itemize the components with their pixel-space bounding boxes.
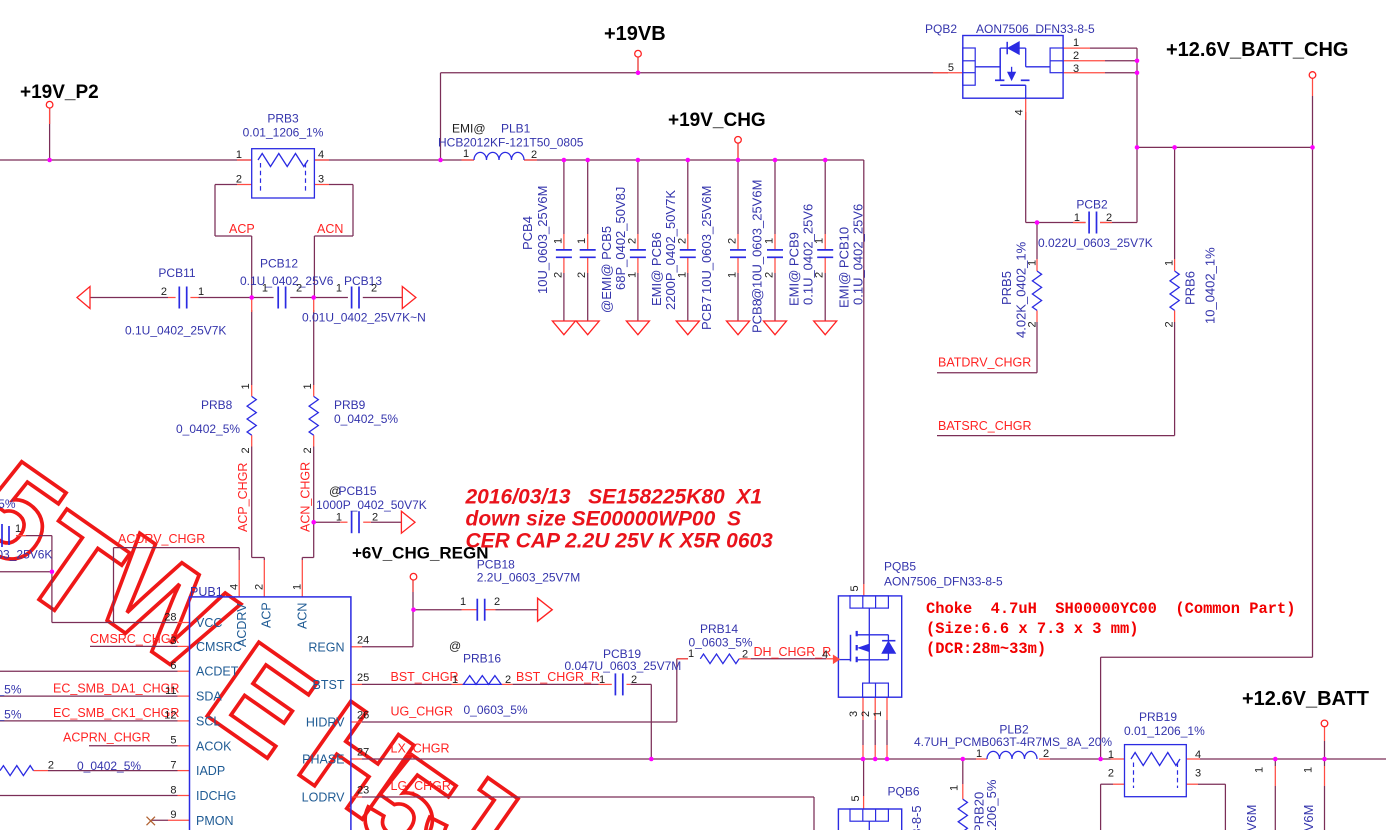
pin — [314, 159, 329, 161]
junction — [438, 158, 443, 163]
svg-text:12: 12 — [164, 710, 176, 722]
pin — [737, 258, 739, 273]
pin — [1113, 783, 1125, 785]
svg-text:1: 1 — [1254, 767, 1266, 773]
wire — [412, 580, 414, 610]
svg-text:0.1U_0402_25V6: 0.1U_0402_25V6 — [800, 204, 815, 305]
junction — [311, 520, 316, 525]
capacitor PCB15 — [351, 511, 353, 533]
svg-text:1: 1 — [262, 283, 268, 295]
svg-text:CMSRC_CHGR: CMSRC_CHGR — [90, 632, 180, 646]
svg-text:3: 3 — [1073, 63, 1079, 75]
wire — [251, 236, 253, 298]
svg-text:23: 23 — [357, 785, 369, 797]
svg-text:PRB3: PRB3 — [267, 112, 299, 126]
svg-text:PQB5: PQB5 — [884, 560, 916, 574]
pin — [237, 184, 252, 186]
wire — [113, 548, 115, 623]
resistor PRB3 (current sense) — [252, 149, 315, 198]
wire — [1324, 786, 1326, 830]
svg-text:1: 1 — [240, 383, 252, 389]
junction — [562, 158, 567, 163]
pin — [168, 297, 176, 299]
svg-text:0_1206_5%: 0_1206_5% — [984, 779, 999, 830]
svg-text:5: 5 — [170, 735, 176, 747]
wire — [1105, 60, 1137, 62]
svg-text:24: 24 — [357, 634, 369, 646]
pin — [687, 234, 689, 249]
svg-text:10U_0603_25V6M: 10U_0603_25V6M — [699, 186, 714, 294]
svg-text:1: 1 — [1073, 37, 1079, 49]
wire — [252, 557, 265, 559]
pin — [737, 143, 739, 158]
pin — [1039, 758, 1050, 760]
svg-text:PCB12: PCB12 — [260, 257, 298, 271]
pin — [862, 745, 864, 759]
power terminal +12.6V_BATT_CHG — [1309, 72, 1316, 79]
svg-text:2: 2 — [1027, 321, 1039, 327]
ground — [626, 321, 649, 335]
pin — [824, 258, 826, 273]
pin — [1274, 766, 1276, 786]
wire — [412, 610, 414, 647]
svg-text:ACP: ACP — [229, 222, 255, 236]
pin — [677, 658, 688, 660]
junction — [1135, 70, 1140, 75]
pin — [485, 609, 496, 611]
junction — [1172, 145, 1177, 150]
wire — [314, 235, 353, 237]
transistor PQB5 (AON7506 N-MOSFET) — [838, 596, 901, 697]
svg-text:1: 1 — [626, 272, 638, 278]
svg-text:2: 2 — [576, 272, 588, 278]
pin — [1063, 60, 1105, 62]
svg-text:Choke 4.7uH SH00000YC00 (Co: Choke 4.7uH SH00000YC00 (Common Part) — [926, 600, 1295, 618]
wire — [1100, 222, 1137, 224]
junction — [961, 757, 966, 762]
pin — [1312, 78, 1314, 96]
ground — [552, 321, 575, 335]
svg-text:2: 2 — [727, 238, 739, 244]
wire — [1324, 741, 1326, 759]
svg-text:PMON: PMON — [196, 814, 234, 828]
svg-text:0_0402_5%: 0_0402_5% — [0, 707, 22, 721]
svg-text:1: 1 — [872, 711, 884, 717]
svg-text:2: 2 — [1164, 321, 1176, 327]
svg-text:2: 2 — [1108, 768, 1114, 780]
wire — [737, 273, 739, 321]
pin — [886, 745, 888, 759]
svg-text:EC_SMB_DA1_CHGR: EC_SMB_DA1_CHGR — [53, 681, 179, 695]
junction — [311, 295, 316, 300]
wire — [751, 658, 826, 660]
svg-text:2: 2 — [764, 272, 776, 278]
svg-text:PRB9: PRB9 — [334, 398, 366, 412]
wire — [238, 548, 240, 560]
pin — [962, 784, 964, 799]
pin — [1186, 783, 1198, 785]
resistor PRB19 zigzag — [1131, 753, 1180, 766]
wire — [0, 720, 178, 722]
pin — [177, 622, 190, 624]
svg-text:PCB4: PCB4 — [520, 216, 535, 250]
svg-text:2_5%: 2_5% — [0, 497, 16, 511]
pin — [251, 385, 253, 396]
svg-text:PUB1: PUB1 — [190, 585, 223, 599]
pin — [1324, 727, 1326, 741]
svg-text:ACOK: ACOK — [196, 739, 232, 753]
off-page connector — [402, 287, 416, 309]
wire — [251, 447, 253, 558]
pin — [637, 234, 639, 249]
wire — [737, 160, 739, 234]
svg-text:5: 5 — [850, 795, 862, 801]
wire — [813, 797, 815, 830]
wire — [824, 273, 826, 321]
svg-text:2: 2 — [531, 149, 537, 161]
svg-text:1: 1 — [1074, 212, 1080, 224]
no-connect X at PMON — [147, 817, 156, 826]
svg-text:1: 1 — [764, 238, 776, 244]
svg-text:5: 5 — [948, 62, 954, 74]
junction — [249, 295, 254, 300]
wire — [637, 57, 639, 73]
svg-text:@: @ — [449, 639, 461, 653]
wire — [371, 521, 402, 523]
svg-text:PQB6: PQB6 — [888, 785, 920, 799]
svg-text:@EMI@ PCB5: @EMI@ PCB5 — [599, 226, 614, 313]
watermark text 5TWEH5J — [0, 433, 90, 595]
wire — [687, 273, 689, 321]
wire — [90, 645, 178, 647]
svg-text:1: 1 — [15, 523, 21, 535]
svg-text:4: 4 — [318, 149, 324, 161]
svg-text:BATSRC_CHGR: BATSRC_CHGR — [938, 419, 1032, 433]
capacitor PCB9 — [767, 249, 783, 251]
wire — [51, 536, 53, 623]
svg-text:ACPRN_CHGR: ACPRN_CHGR — [63, 731, 151, 745]
wire — [90, 297, 168, 299]
svg-text:(DCR:28m~33m): (DCR:28m~33m) — [926, 640, 1046, 658]
pin — [251, 299, 253, 312]
wire — [886, 720, 888, 745]
capacitor PCB13 — [351, 287, 353, 309]
svg-text:1: 1 — [599, 674, 605, 686]
svg-text:2: 2 — [505, 674, 511, 686]
pin — [501, 683, 512, 685]
svg-text:1: 1 — [1303, 767, 1315, 773]
wire — [863, 759, 865, 796]
svg-text:0_0402_5%: 0_0402_5% — [334, 412, 398, 426]
svg-text:LX_CHGR: LX_CHGR — [391, 742, 450, 756]
pin — [178, 720, 190, 722]
svg-text:25: 25 — [357, 672, 369, 684]
wire — [862, 720, 864, 745]
pin — [462, 609, 478, 611]
capacitor PCB11 — [178, 287, 180, 309]
wire — [874, 720, 876, 745]
pin — [687, 258, 689, 273]
off-page connector — [77, 287, 90, 309]
capacitor PCB18 — [476, 599, 478, 621]
wire — [215, 235, 252, 237]
svg-text:+19VB: +19VB — [604, 23, 666, 45]
wire — [1224, 784, 1226, 830]
svg-text:0.01_1206_1%: 0.01_1206_1% — [1124, 724, 1205, 738]
pin — [1036, 310, 1038, 322]
svg-text:1: 1 — [949, 785, 961, 791]
pin — [863, 584, 865, 596]
svg-text:PLB1: PLB1 — [501, 122, 531, 136]
wire — [1026, 222, 1086, 224]
svg-text:PRB16: PRB16 — [463, 652, 501, 666]
pin — [351, 683, 362, 685]
wire — [737, 143, 739, 160]
svg-text:2: 2 — [494, 596, 500, 608]
svg-text:PRB14: PRB14 — [700, 622, 738, 636]
svg-text:3: 3 — [170, 635, 176, 647]
svg-text:PRB5: PRB5 — [999, 271, 1014, 305]
pin — [1100, 222, 1112, 224]
wire — [630, 683, 651, 685]
pin — [824, 234, 826, 249]
pin — [774, 234, 776, 249]
pin — [351, 646, 362, 648]
wire — [1101, 656, 1313, 658]
pin — [313, 435, 315, 446]
capacitor PCB7 — [680, 249, 696, 251]
pin — [737, 234, 739, 249]
power terminal +12.6V_BATT — [1321, 720, 1328, 727]
wire — [637, 160, 639, 234]
wire — [263, 558, 265, 561]
svg-text:ACDRV: ACDRV — [235, 603, 249, 647]
svg-text:0.1U_0402_25V7K: 0.1U_0402_25V7K — [125, 324, 226, 338]
pin — [412, 580, 414, 592]
pin — [351, 796, 362, 798]
wire — [1025, 112, 1027, 223]
junction — [773, 158, 778, 163]
pin — [1174, 259, 1176, 271]
wire — [1274, 786, 1276, 830]
off-page connector — [538, 598, 553, 621]
pin — [1186, 758, 1200, 760]
wire — [362, 796, 814, 798]
junction — [47, 158, 52, 163]
resistor PRB6 — [1170, 271, 1179, 310]
svg-text:4: 4 — [1195, 749, 1201, 761]
junction — [411, 607, 416, 612]
wire — [89, 745, 178, 747]
svg-text:2.2U_0603_25V7M: 2.2U_0603_25V7M — [477, 570, 580, 584]
svg-text:+19V_CHG: +19V_CHG — [668, 110, 766, 131]
junction — [1322, 757, 1327, 762]
wire — [774, 160, 776, 234]
transistor PQB2 (AON7506 P-MOSFET) — [963, 36, 1063, 99]
svg-text:2: 2 — [552, 272, 564, 278]
svg-text:0.1U_0603_25V6K: 0.1U_0603_25V6K — [0, 548, 52, 562]
svg-text:10U_0603_25V6M: 10U_0603_25V6M — [535, 186, 550, 294]
wire — [1036, 223, 1038, 260]
wire — [524, 159, 864, 161]
pin — [1063, 72, 1105, 74]
svg-text:2: 2 — [236, 174, 242, 186]
wire — [1174, 322, 1176, 436]
junction — [1135, 59, 1140, 64]
pin — [886, 697, 888, 720]
svg-text:0_0603_5%: 0_0603_5% — [689, 636, 753, 650]
svg-text:0.1U_0402_25V6: 0.1U_0402_25V6 — [240, 274, 334, 288]
svg-text:1: 1 — [198, 286, 204, 298]
pin — [462, 159, 475, 161]
power terminal +19V_CHG — [735, 137, 742, 144]
pin — [524, 159, 537, 161]
svg-text:PQB2: PQB2 — [925, 22, 957, 36]
svg-text:2: 2 — [240, 447, 252, 453]
svg-text:LODRV: LODRV — [302, 791, 346, 805]
svg-text:1: 1 — [336, 283, 342, 295]
svg-text:27: 27 — [357, 747, 369, 759]
wire — [52, 622, 177, 624]
junction — [636, 158, 641, 163]
junction — [686, 158, 691, 163]
svg-text:26: 26 — [357, 710, 369, 722]
svg-text:2: 2 — [161, 286, 167, 298]
svg-text:AON7506_DFN33-8-5: AON7506_DFN33-8-5 — [909, 805, 924, 830]
pin — [238, 560, 240, 597]
junction — [636, 71, 641, 76]
capacitor PCB10 — [817, 249, 833, 251]
wire — [962, 759, 964, 784]
svg-text:PCB7: PCB7 — [699, 296, 714, 330]
capacitor PCB2 — [1088, 212, 1090, 234]
svg-text:DH_CHGR_R: DH_CHGR_R — [754, 645, 832, 659]
svg-text:5: 5 — [849, 585, 861, 591]
transistor PQB6 (AON7506 N-MOSFET) — [838, 809, 901, 835]
svg-text:HCB2012KF-121T50_0805: HCB2012KF-121T50_0805 — [438, 136, 584, 150]
svg-text:1: 1 — [1027, 260, 1039, 266]
pin — [313, 385, 315, 396]
wire — [774, 273, 776, 321]
svg-text:+12.6V_BATT: +12.6V_BATT — [1242, 688, 1369, 710]
wire — [650, 684, 652, 759]
inductor PLB1 — [474, 152, 524, 160]
resistor PRB20 — [958, 799, 967, 835]
svg-text:EMI@ PCB10: EMI@ PCB10 — [837, 227, 852, 308]
svg-text:1: 1 — [336, 512, 342, 524]
charger IC PUB1 body — [190, 597, 351, 835]
svg-text:10U_0603_25V6M: 10U_0603_25V6M — [1301, 805, 1316, 830]
wire — [199, 297, 274, 299]
wire — [1105, 72, 1137, 74]
wire — [513, 683, 599, 685]
svg-text:ACP: ACP — [260, 602, 274, 628]
pin — [263, 560, 265, 597]
wire — [251, 310, 253, 385]
wire — [496, 609, 538, 611]
wire — [314, 521, 341, 523]
svg-text:ACP_CHGR: ACP_CHGR — [236, 463, 250, 532]
svg-text:VCC: VCC — [196, 616, 222, 630]
pin — [933, 72, 963, 74]
wire — [48, 770, 178, 772]
pin — [301, 560, 303, 597]
svg-text:1: 1 — [676, 272, 688, 278]
pin — [1111, 758, 1125, 760]
svg-text:AON7506_DFN33-8-5: AON7506_DFN33-8-5 — [976, 22, 1095, 36]
svg-text:SDA: SDA — [196, 690, 222, 704]
wire — [563, 160, 565, 234]
svg-text:0.047U_0603_25V7M: 0.047U_0603_25V7M — [565, 659, 682, 673]
svg-text:3: 3 — [848, 711, 860, 717]
svg-text:4.7UH_PCMB063T-4R7MS_8A_20%: 4.7UH_PCMB063T-4R7MS_8A_20% — [914, 735, 1112, 749]
ground — [576, 321, 599, 335]
wire — [0, 159, 252, 161]
svg-text:IADP: IADP — [196, 764, 225, 778]
wire — [362, 721, 677, 723]
svg-text:1: 1 — [814, 238, 826, 244]
svg-text:28: 28 — [164, 611, 176, 623]
pin — [351, 758, 362, 760]
svg-text:1000P_0402_50V7K: 1000P_0402_50V7K — [316, 498, 427, 512]
wire — [151, 819, 168, 821]
resistor (clipped, IADP series) — [0, 766, 34, 776]
wire — [863, 160, 865, 584]
pin — [563, 258, 565, 273]
svg-text:1: 1 — [576, 238, 588, 244]
wire — [314, 159, 474, 161]
wire — [1324, 759, 1326, 766]
wire — [1274, 759, 1276, 766]
svg-text:7: 7 — [170, 759, 176, 771]
wire — [1100, 784, 1102, 830]
svg-text:CER CAP 2.2U 25V K X5R 0603: CER CAP 2.2U 25V K X5R 0603 — [466, 530, 774, 553]
wire — [313, 310, 315, 385]
capacitor PCB6 — [630, 249, 646, 251]
svg-text:+12.6V_BATT_CHG: +12.6V_BATT_CHG — [1166, 39, 1348, 61]
svg-text:1: 1 — [236, 149, 242, 161]
wire — [413, 609, 462, 611]
pin — [314, 184, 329, 186]
wire — [301, 558, 303, 561]
pin — [16, 535, 26, 537]
wire — [1036, 322, 1038, 373]
svg-text:PRB6: PRB6 — [1183, 271, 1198, 305]
ground — [727, 321, 750, 335]
svg-text:3: 3 — [1195, 768, 1201, 780]
svg-text:2: 2 — [371, 283, 377, 295]
svg-text:1: 1 — [302, 383, 314, 389]
svg-text:EMI@ PCB6: EMI@ PCB6 — [649, 232, 664, 306]
junction — [649, 757, 654, 762]
wire — [1100, 657, 1102, 759]
pin — [178, 745, 190, 747]
off-page connector — [401, 511, 415, 533]
pin — [178, 670, 190, 672]
power terminal +6V_CHG_REGN — [410, 573, 417, 580]
wire — [313, 236, 315, 298]
wire — [637, 273, 639, 321]
inductor PLB2 — [987, 751, 1037, 759]
svg-text:10U_0603_25V6M: 10U_0603_25V6M — [1244, 805, 1259, 830]
svg-text:1: 1 — [976, 748, 982, 760]
svg-text:down size SE00000WP00 S: down size SE00000WP00 S — [466, 508, 741, 531]
junction — [50, 569, 55, 574]
pin — [1036, 259, 1038, 271]
svg-text:ACDRV_CHGR: ACDRV_CHGR — [118, 532, 205, 546]
wire — [440, 73, 442, 160]
wire — [302, 557, 313, 559]
